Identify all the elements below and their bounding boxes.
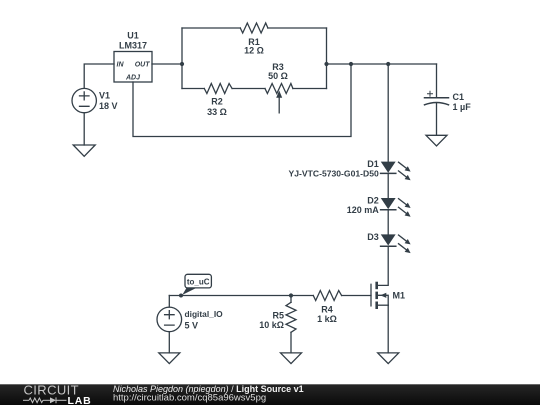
- wire mid rail to C1: [327, 63, 437, 65]
- wire gate rail: [169, 295, 313, 297]
- node junction ADJ return: [349, 62, 353, 66]
- svg-text:M1: M1: [393, 290, 406, 300]
- svg-text:LAB: LAB: [68, 395, 92, 405]
- svg-text:http://circuitlab.com/cq85a96w: http://circuitlab.com/cq85a96wsv5pg: [113, 392, 266, 403]
- svg-text:12 Ω: 12 Ω: [244, 46, 264, 56]
- regulator U1 LM317 box: [114, 52, 152, 83]
- resistor R1: [240, 23, 268, 33]
- wire top rail right of R1: [268, 27, 327, 29]
- node junction left mid rail: [324, 62, 328, 66]
- LED D3: [381, 235, 411, 253]
- wire ADJ pin return: [133, 64, 351, 137]
- ground below M1: [378, 353, 399, 364]
- transistor M1 NMOS: [371, 282, 388, 309]
- svg-text:V1: V1: [99, 91, 110, 101]
- node flag to_uC: [179, 274, 211, 297]
- svg-text:33 Ω: 33 Ω: [207, 107, 227, 117]
- voltage source V1: [72, 88, 96, 112]
- svg-text:18 V: 18 V: [99, 101, 118, 111]
- wire D1 to D2: [387, 173, 389, 198]
- wire digital_IO bottom to ground: [168, 332, 170, 353]
- wire V1 top to IN: [84, 64, 114, 88]
- wire R4 to gate: [342, 295, 371, 297]
- wire between R2 and R3: [232, 88, 265, 90]
- svg-text:1 µF: 1 µF: [453, 102, 472, 112]
- wire R3 to right rail: [293, 88, 327, 90]
- svg-text:ADJ: ADJ: [125, 75, 141, 82]
- resistor R5: [286, 302, 296, 332]
- wire R5 top: [290, 296, 292, 303]
- svg-text:U1: U1: [127, 31, 139, 41]
- svg-text:5 V: 5 V: [185, 320, 199, 330]
- wire mid rail to D1: [387, 64, 389, 162]
- capacitor C1: [425, 64, 449, 135]
- svg-text:D3: D3: [367, 232, 379, 242]
- wire left rail of parallel section: [181, 28, 183, 89]
- svg-text:LM317: LM317: [119, 41, 147, 51]
- footer logo schematic glyph: [23, 397, 67, 403]
- footer bar: [0, 384, 540, 405]
- wire bottom rail left of R2: [182, 88, 204, 90]
- wire digital_IO top to gate rail: [168, 296, 170, 308]
- ground below C1: [426, 135, 447, 146]
- wire top rail left of R1: [182, 27, 240, 29]
- ground below digital_IO: [159, 353, 180, 364]
- wire D2 to D3: [387, 210, 389, 235]
- wire OUT pin to node: [152, 63, 182, 65]
- svg-text:digital_IO: digital_IO: [185, 309, 224, 319]
- node junction R5: [289, 293, 293, 297]
- svg-text:R2: R2: [211, 97, 223, 107]
- svg-text:C1: C1: [453, 92, 465, 102]
- LED D2: [381, 198, 411, 216]
- svg-text:120 mA: 120 mA: [347, 205, 380, 215]
- svg-text:10 kΩ: 10 kΩ: [259, 320, 284, 330]
- LED D1: [381, 162, 411, 180]
- potentiometer R3: [265, 84, 293, 114]
- wire right rail of parallel section: [326, 28, 328, 89]
- node junction LED chain: [386, 62, 390, 66]
- ground below R5: [281, 353, 302, 364]
- ground below V1: [73, 145, 95, 156]
- wire M1 source to ground: [387, 305, 389, 353]
- wire V1 bottom to ground: [83, 113, 85, 145]
- svg-text:to_uC: to_uC: [187, 277, 210, 286]
- wire D3 to M1 drain: [378, 246, 388, 285]
- svg-text:50 Ω: 50 Ω: [268, 71, 288, 81]
- svg-text:IN: IN: [117, 62, 125, 69]
- resistor R4: [313, 291, 341, 301]
- wire R5 bottom to ground: [290, 332, 292, 353]
- resistor R2: [204, 84, 232, 94]
- voltage source digital_IO: [157, 307, 182, 332]
- node junction at OUT rail: [180, 62, 184, 66]
- svg-text:OUT: OUT: [135, 62, 151, 69]
- svg-text:YJ-VTC-5730-G01-D50: YJ-VTC-5730-G01-D50: [289, 168, 379, 178]
- svg-text:1 kΩ: 1 kΩ: [317, 314, 337, 324]
